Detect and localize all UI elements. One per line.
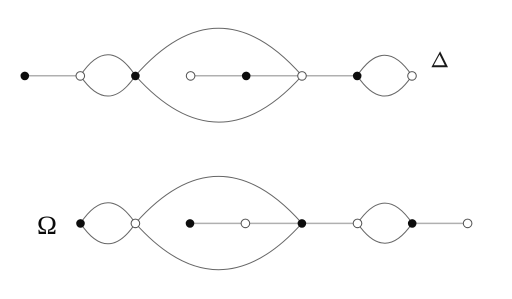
wire: bottom big lens lower arc node2-node5 [135, 223, 302, 269]
node T1 filled [21, 72, 30, 81]
node B8 open [463, 219, 472, 228]
wire: bottom straight edge node7-node8 [412, 222, 467, 224]
node T4 open [186, 72, 195, 81]
node T6 open [298, 72, 307, 81]
wire: top big lens upper arc node3-node6 [135, 28, 302, 75]
wire: bottom right small lens lower arc node6-node7 [358, 223, 413, 243]
node B5 filled [298, 219, 307, 228]
label Delta [431, 51, 448, 67]
node T5 filled [242, 72, 251, 81]
wire: top straight edge node6-node7 [302, 75, 357, 77]
wire: top small lens lower arc node2-node3 [80, 76, 135, 96]
wire: top right small lens upper arc node7-node8 [357, 55, 412, 75]
wire: bottom straight edge node5-node6 [302, 222, 358, 224]
wire: bottom small lens upper arc node1-node2 [81, 203, 136, 224]
wire: bottom right small lens upper arc node6-node7 [358, 203, 413, 223]
wire: bottom inner straight edge node3-node5 [190, 222, 302, 224]
node B1 filled [76, 219, 85, 228]
node B2 open [131, 219, 140, 228]
wire: top big lens lower arc node3-node6 [135, 76, 302, 122]
node T3 filled [131, 72, 140, 81]
wire: bottom small lens lower arc node1-node2 [81, 223, 136, 243]
wire: top inner straight edge node4-node6 [191, 75, 302, 77]
node B7 filled [408, 219, 417, 228]
node T7 filled [353, 72, 362, 81]
wire: bottom big lens upper arc node2-node5 [135, 176, 302, 223]
node T8 open [408, 72, 417, 81]
node B6 open [353, 219, 362, 228]
wire: top straight edge node1-node2 [25, 75, 81, 77]
node B3 filled [186, 219, 195, 228]
node B4 open [241, 219, 250, 228]
svg-text:Ω: Ω [37, 210, 57, 240]
node T2 open [76, 72, 85, 81]
wire: top right small lens lower arc node7-node8 [357, 76, 412, 96]
wire: top small lens upper arc node2-node3 [80, 55, 135, 76]
